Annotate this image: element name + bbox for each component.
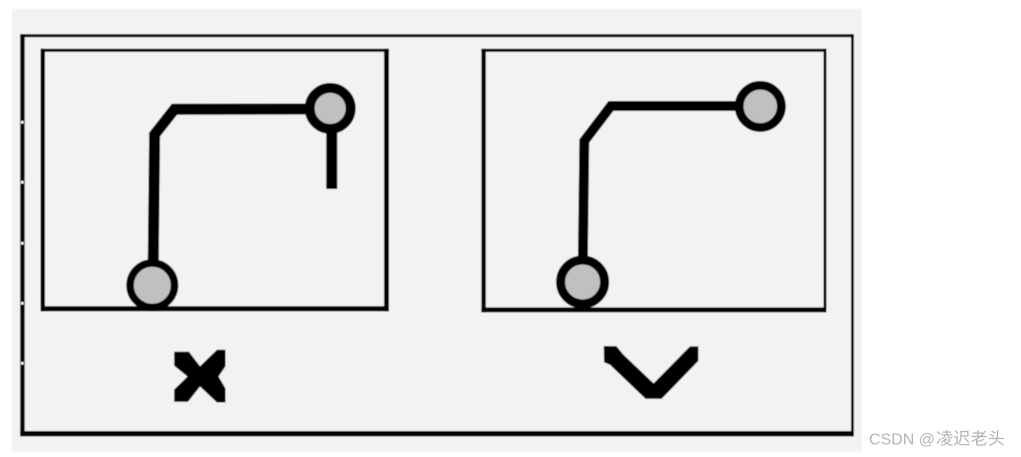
X mark (wrong) (174, 350, 225, 403)
left panel trace (bad example) (153, 109, 330, 285)
right panel trace (good example) (583, 106, 761, 282)
watermark char 迟 (954, 430, 970, 445)
watermark char 头 (989, 430, 1004, 446)
right panel bottom pad (561, 260, 605, 304)
outer frame bottom (20, 431, 854, 436)
outer frame right (851, 34, 854, 436)
left example panel frame (41, 49, 390, 312)
left panel stub segment (326, 108, 337, 189)
watermark char 凌 (937, 430, 953, 446)
right example panel frame (481, 49, 826, 313)
svg-text:CSDN @: CSDN @ (869, 432, 935, 449)
check mark (correct) (604, 346, 699, 399)
left panel top-right pad (310, 88, 351, 129)
left border white ticks (21, 121, 24, 365)
left panel bottom pad (130, 263, 175, 308)
outer frame top (20, 34, 854, 37)
watermark char 老 (971, 430, 987, 446)
outer frame left (20, 34, 25, 436)
right panel top-right pad (739, 85, 781, 127)
